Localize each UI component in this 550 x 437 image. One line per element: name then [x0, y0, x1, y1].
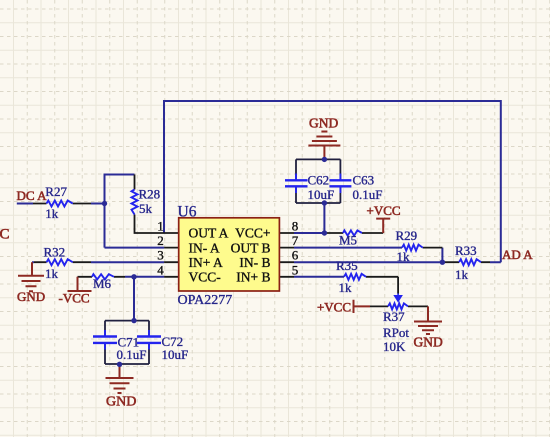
svg-text:3: 3	[157, 248, 164, 263]
svg-text:5: 5	[292, 262, 299, 277]
svg-text:10uF: 10uF	[308, 187, 335, 202]
svg-text:IN- B: IN- B	[239, 255, 270, 270]
svg-text:5k: 5k	[139, 201, 153, 216]
svg-text:GND: GND	[106, 395, 136, 410]
svg-text:IN+ B: IN+ B	[236, 270, 270, 285]
svg-text:1k: 1k	[45, 206, 59, 221]
svg-text:OUT A: OUT A	[189, 226, 229, 241]
svg-text:1k: 1k	[397, 249, 411, 264]
svg-text:10uF: 10uF	[162, 347, 189, 362]
svg-text:VCC-: VCC-	[189, 270, 222, 285]
svg-text:VCC+: VCC+	[235, 226, 270, 241]
svg-text:+VCC: +VCC	[317, 299, 351, 314]
svg-text:R29: R29	[396, 228, 418, 243]
svg-text:R33: R33	[455, 243, 477, 258]
svg-text:+VCC: +VCC	[367, 203, 401, 218]
svg-text:GND: GND	[414, 335, 443, 350]
svg-text:0.1uF: 0.1uF	[117, 347, 147, 362]
svg-text:IN- A: IN- A	[189, 240, 220, 255]
svg-text:OUT B: OUT B	[231, 240, 271, 255]
svg-text:R35: R35	[336, 258, 358, 273]
svg-text:RPot: RPot	[383, 325, 409, 340]
svg-text:2: 2	[157, 233, 164, 248]
svg-text:1k: 1k	[45, 266, 59, 281]
svg-text:10K: 10K	[383, 339, 406, 354]
svg-text:U6: U6	[178, 204, 197, 221]
svg-text:1k: 1k	[339, 280, 353, 295]
svg-text:R28: R28	[139, 187, 161, 202]
svg-text:C63: C63	[353, 173, 375, 188]
svg-text:8: 8	[292, 219, 299, 234]
svg-text:4: 4	[157, 262, 164, 277]
svg-text:IN+ A: IN+ A	[189, 255, 223, 270]
svg-text:1k: 1k	[455, 267, 469, 282]
svg-text:M6: M6	[93, 276, 112, 291]
svg-text:AD A: AD A	[502, 247, 533, 262]
svg-text:M5: M5	[339, 232, 357, 247]
svg-text:1: 1	[157, 219, 164, 234]
svg-text:CC: CC	[0, 227, 10, 243]
svg-text:6: 6	[292, 248, 299, 263]
svg-text:GND: GND	[17, 289, 45, 304]
svg-text:R37: R37	[383, 309, 405, 324]
svg-text:OPA2277: OPA2277	[178, 293, 233, 308]
svg-text:GND: GND	[309, 116, 338, 131]
svg-text:7: 7	[292, 233, 299, 248]
svg-text:0.1uF: 0.1uF	[353, 187, 383, 202]
svg-text:DC A: DC A	[17, 188, 48, 203]
svg-text:C62: C62	[308, 173, 330, 188]
svg-text:-VCC: -VCC	[59, 291, 90, 306]
svg-text:R32: R32	[44, 245, 66, 260]
svg-text:R27: R27	[45, 184, 67, 199]
